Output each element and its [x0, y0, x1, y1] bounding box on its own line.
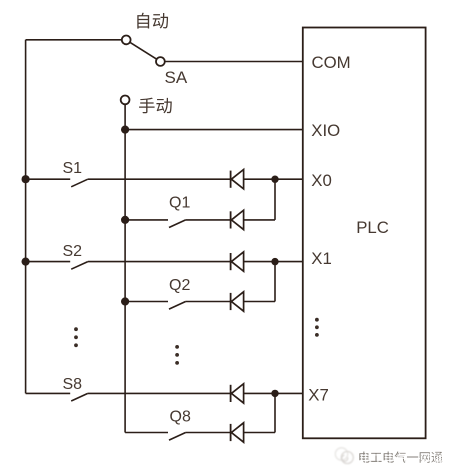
svg-text:S8: S8 [63, 376, 83, 393]
svg-text:X1: X1 [311, 249, 332, 268]
svg-text:Q1: Q1 [169, 195, 190, 212]
svg-text:SA: SA [165, 68, 188, 87]
svg-text:COM: COM [312, 53, 351, 72]
svg-text:X7: X7 [308, 386, 329, 405]
svg-text:S1: S1 [63, 160, 83, 177]
svg-text:X0: X0 [311, 171, 332, 190]
svg-text:Q2: Q2 [169, 277, 190, 294]
svg-text:PLC: PLC [356, 218, 389, 237]
svg-text:XIO: XIO [311, 121, 340, 140]
svg-text:Q8: Q8 [170, 409, 191, 426]
svg-text:S2: S2 [63, 243, 83, 260]
